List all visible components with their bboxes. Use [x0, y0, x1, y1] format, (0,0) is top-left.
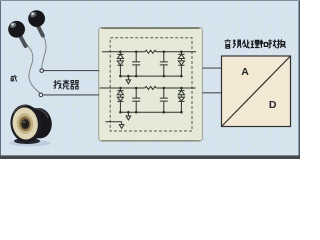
earbud body left	[8, 21, 25, 38]
label 扬声器 (speaker)	[54, 80, 79, 89]
capacitor C3	[132, 88, 140, 112]
wire upper output segment	[156, 51, 196, 53]
capacitor C2	[160, 52, 168, 76]
earbud stem left	[21, 37, 26, 47]
ADC diagonal	[222, 56, 291, 127]
ADC block U1	[222, 56, 291, 127]
junction dots upper	[119, 51, 183, 78]
clamp diode pair D1	[117, 52, 123, 76]
svg-text:A: A	[241, 66, 249, 78]
wire panel to ADC bottom	[202, 92, 221, 94]
outer frame	[0, 0, 2, 159]
wire terminal2 to panel	[43, 94, 99, 96]
panel background (schematic plate)	[99, 28, 203, 142]
earbud wire left	[25, 42, 41, 93]
resistor R2	[145, 86, 156, 89]
clamp diode pair D4	[178, 88, 184, 112]
wire terminal1 to panel	[44, 70, 99, 72]
common ground stub wire	[105, 122, 124, 129]
speaker photo	[8, 103, 53, 147]
wire upper input segment	[102, 51, 145, 53]
upper ground rail	[120, 75, 181, 77]
lower ground rail	[120, 111, 181, 113]
ground lower	[126, 112, 131, 120]
junction dots lower	[119, 87, 183, 114]
ground upper	[126, 76, 131, 84]
wire lower input segment	[100, 87, 145, 89]
clamp diode pair D2	[178, 52, 184, 76]
capacitor C4	[160, 88, 168, 112]
resistor R1	[145, 50, 156, 53]
label 或 (or)	[11, 75, 17, 82]
earbud body right	[28, 10, 45, 27]
wire panel to ADC top	[202, 67, 221, 69]
input terminal 1	[40, 69, 44, 73]
earbud stem right	[38, 27, 43, 36]
earbud wire right	[40, 30, 46, 68]
label 音频处理和转换 (audio processing and conversion)	[225, 39, 286, 48]
clamp diode pair D3	[117, 88, 123, 112]
wire lower output segment	[156, 87, 195, 89]
dashed protection-network box	[110, 38, 192, 131]
svg-text:D: D	[269, 99, 277, 111]
input terminal 2	[39, 93, 43, 97]
capacitor C1	[132, 52, 140, 76]
